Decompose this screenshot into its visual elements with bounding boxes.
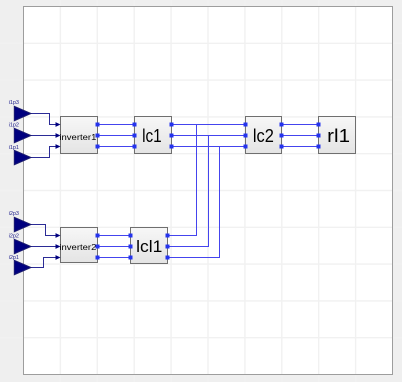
svg-text:inverter2: inverter2: [59, 242, 96, 252]
wire lcl1 out1 riser to bus line 1: [168, 125, 197, 236]
lc1 right port1: [170, 123, 174, 127]
inverter2 output port2: [96, 245, 100, 249]
lcl1 left port2: [129, 245, 133, 249]
block rl1: [319, 117, 356, 154]
wire lc2 out1 to rl1 in1: [282, 124, 319, 126]
wire lc2 out3 to rl1 in3: [282, 146, 319, 148]
wire i1p1 to inverter1 in3: [31, 147, 56, 158]
inverter2 output port1: [96, 234, 100, 238]
block lc2: [246, 117, 282, 154]
svg-text:i1p3: i1p3: [9, 100, 19, 106]
block inverter1: [59, 117, 97, 154]
lcl1 left port1: [129, 234, 133, 238]
lc1 right port3: [170, 145, 174, 149]
block inverter2: [59, 228, 97, 263]
inverter1 output port3: [96, 145, 100, 149]
inverter1 output port1: [96, 123, 100, 127]
svg-text:i2p2: i2p2: [9, 234, 19, 240]
lc2 right port3: [280, 145, 284, 149]
svg-text:i2p3: i2p3: [9, 211, 19, 217]
wire i2p2 to inverter2 in2: [31, 246, 56, 248]
svg-text:lc2: lc2: [253, 126, 274, 146]
svg-text:rl1: rl1: [327, 126, 350, 146]
lc1 left port2: [133, 134, 137, 138]
wire i1p3 to inverter1 in1: [31, 114, 56, 125]
svg-text:lcl1: lcl1: [136, 238, 162, 256]
input connector triangle i1p1: [14, 150, 31, 164]
block lc1: [135, 117, 172, 154]
lc1 left port3: [133, 145, 137, 149]
lc1 right port2: [170, 134, 174, 138]
svg-text:i2p1: i2p1: [9, 255, 19, 261]
inverter1 input arrowhead in1: [56, 122, 61, 127]
input connector triangle i2p1: [14, 260, 31, 274]
svg-text:i1p2: i1p2: [9, 123, 19, 129]
lc2 left port2: [244, 134, 248, 138]
lc2 left port1: [244, 123, 248, 127]
block lcl1: [131, 228, 168, 264]
inverter1 output port2: [96, 134, 100, 138]
wire inverter1 out2 to lc1 in2: [98, 135, 135, 137]
lc2 right port2: [280, 134, 284, 138]
rl1 left port3: [317, 145, 321, 149]
lc1 left port1: [133, 123, 137, 127]
wire i2p1 to inverter2 in3: [31, 258, 56, 268]
lcl1 right port3: [166, 256, 170, 260]
wire inverter1 out1 to lc1 in1: [98, 124, 135, 126]
wire inverter2 out2 to lcl1 in2: [98, 246, 131, 248]
inverter2 input arrowhead in3: [56, 255, 61, 260]
lcl1 right port2: [166, 245, 170, 249]
svg-text:lc1: lc1: [142, 126, 162, 146]
wire inverter2 out3 to lcl1 in3: [98, 257, 131, 259]
wire lc2 out2 to rl1 in2: [282, 135, 319, 137]
wire inverter1 out3 to lc1 in3: [98, 146, 135, 148]
input connector triangle i2p3: [14, 217, 31, 231]
input connector triangle i2p2: [14, 239, 31, 253]
wire inverter2 out1 to lcl1 in1: [98, 235, 131, 237]
inverter1 input arrowhead in3: [56, 144, 61, 149]
lcl1 right port1: [166, 234, 170, 238]
wire lc1 out2 to lc2 in2 (bus line): [172, 135, 246, 137]
wire i1p2 to inverter1 in2: [31, 135, 56, 137]
rl1 left port2: [317, 134, 321, 138]
inverter2 input arrowhead in1: [56, 233, 61, 238]
inverter1 input arrowhead in2: [56, 133, 61, 138]
inverter2 output port3: [96, 256, 100, 260]
input connector triangle i1p3: [14, 106, 31, 120]
inverter2 input arrowhead in2: [56, 244, 61, 249]
lc2 left port3: [244, 145, 248, 149]
wire lc1 out3 to lc2 in3 (bus line): [172, 146, 246, 148]
svg-text:i1p1: i1p1: [9, 145, 19, 151]
wire lcl1 out3 riser to bus line 3: [168, 147, 220, 258]
rl1 left port1: [317, 123, 321, 127]
lc2 right port1: [280, 123, 284, 127]
input connector triangle i1p2: [14, 128, 31, 142]
wire i2p3 to inverter2 in1: [31, 225, 56, 236]
lcl1 left port3: [129, 256, 133, 260]
wire lcl1 out2 riser to bus line 2: [168, 136, 209, 247]
svg-text:inverter1: inverter1: [59, 132, 96, 142]
wire lc1 out1 to lc2 in1 (bus line): [172, 124, 246, 126]
